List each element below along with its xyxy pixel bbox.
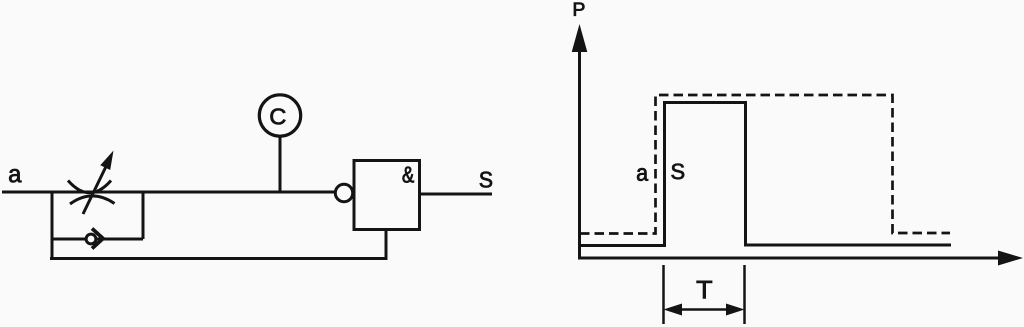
inverting input bubble: [335, 184, 352, 201]
wire bypass right vertical: [142, 192, 145, 239]
wire feedback riser: [385, 229, 388, 260]
right tick of T: [743, 265, 746, 324]
signal a dashed curve: [580, 95, 950, 234]
dimension arrow T: [664, 304, 745, 316]
x-axis: [578, 251, 1023, 266]
node S: [480, 172, 492, 188]
node a: [9, 169, 21, 182]
label S on graph: [671, 164, 684, 180]
wire main line a to gate: [2, 191, 336, 194]
and-gate U1: [354, 161, 420, 230]
label T: [697, 281, 712, 298]
wire bypass branch: [52, 238, 143, 241]
throttle valve (adjustable restrictor): [68, 151, 115, 215]
left tick of T: [662, 265, 665, 324]
y-axis: [572, 24, 588, 259]
label a on graph: [637, 168, 648, 181]
check valve: [86, 229, 103, 249]
wire C stem: [279, 136, 282, 192]
reservoir C: [259, 95, 300, 136]
wire feedback bottom: [50, 257, 388, 260]
signal S solid curve: [580, 103, 951, 246]
label P: [574, 3, 584, 16]
wire output line: [420, 193, 493, 196]
wire bypass left vertical: [51, 192, 54, 260]
